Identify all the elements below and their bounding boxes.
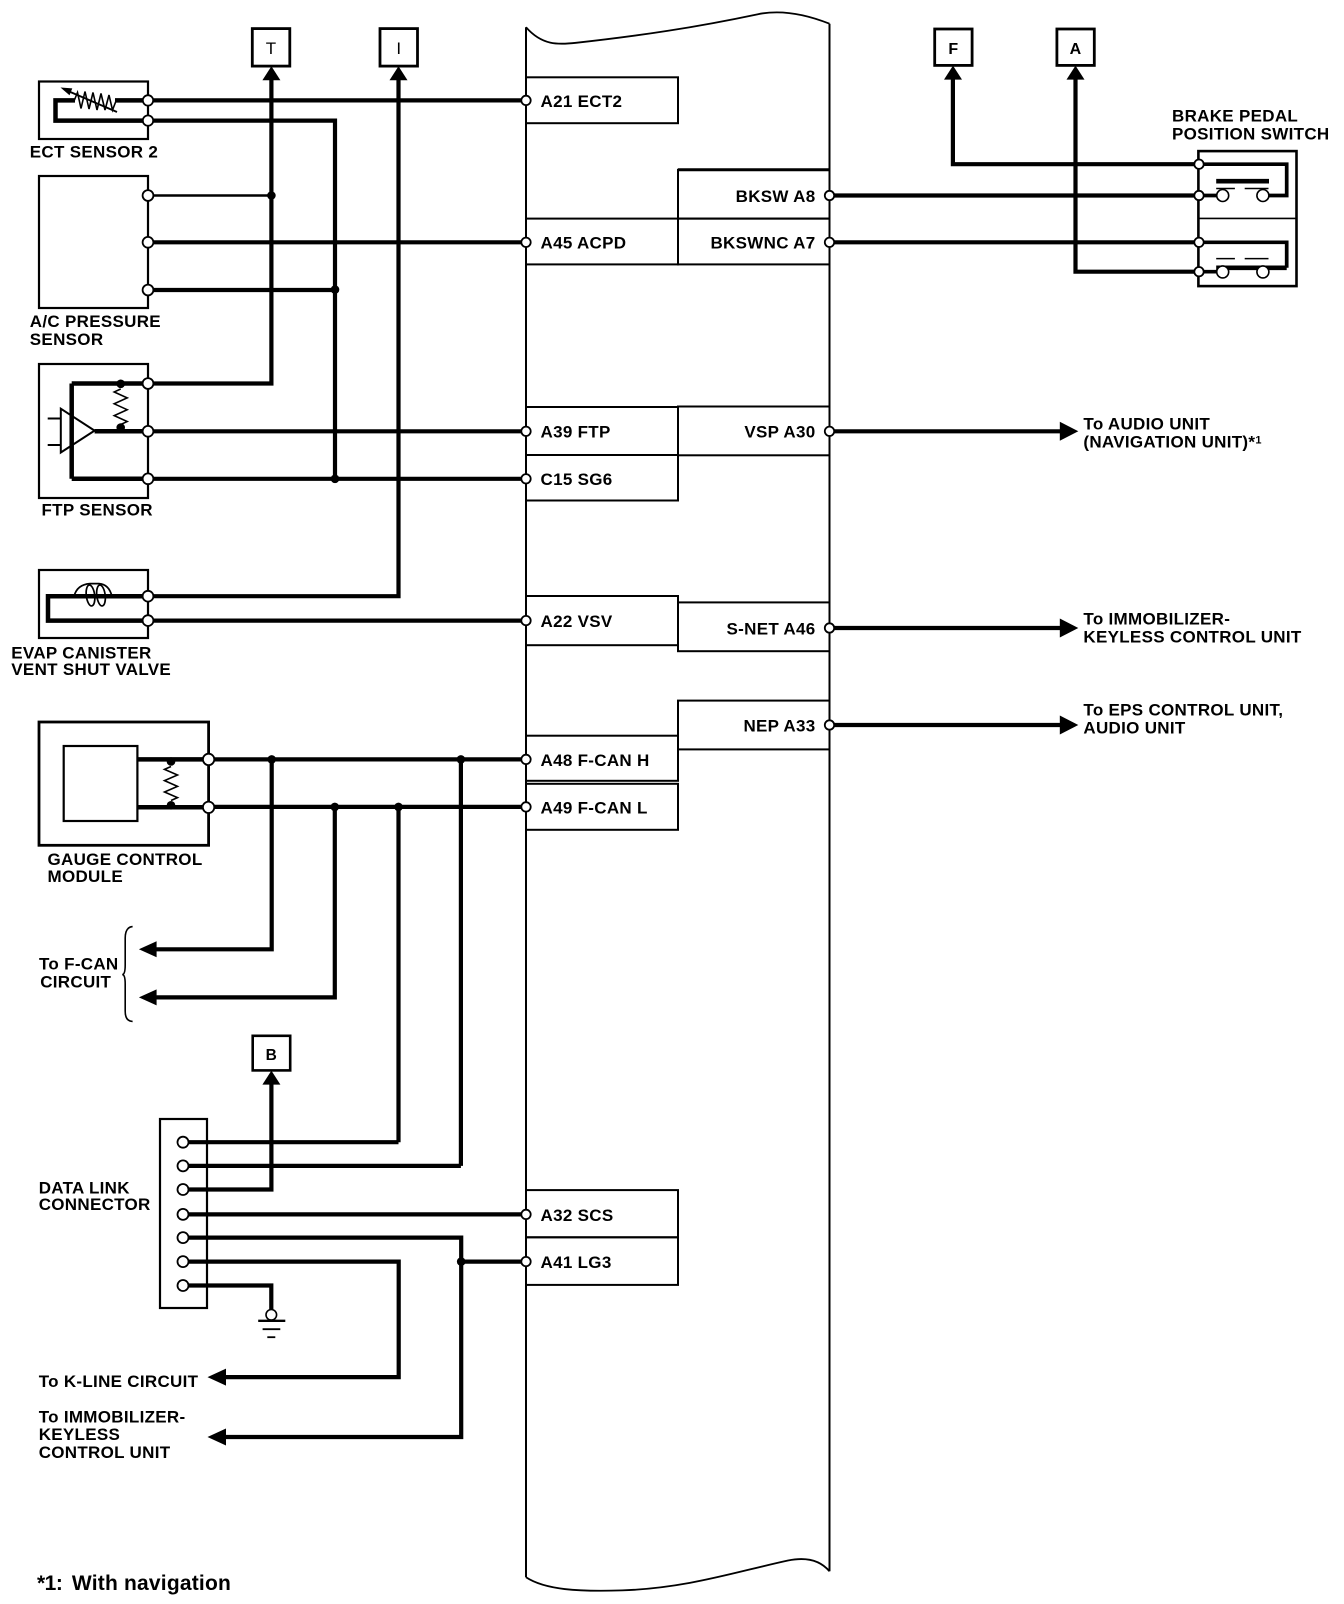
svg-text:I: I (396, 39, 401, 58)
svg-text:SENSOR: SENSOR (30, 330, 104, 349)
svg-text:To AUDIO UNIT: To AUDIO UNIT (1083, 415, 1210, 434)
svg-text:C15 SG6: C15 SG6 (541, 470, 613, 489)
svg-text:To F-CAN: To F-CAN (39, 955, 119, 974)
svg-text:A22 VSV: A22 VSV (541, 612, 613, 631)
svg-text:A39 FTP: A39 FTP (541, 423, 611, 442)
svg-text:A32 SCS: A32 SCS (541, 1206, 614, 1225)
svg-text:CIRCUIT: CIRCUIT (40, 972, 111, 991)
svg-text:A/C PRESSURE: A/C PRESSURE (30, 312, 161, 331)
svg-text:NEP A33: NEP A33 (743, 716, 815, 735)
svg-text:A49 F-CAN L: A49 F-CAN L (541, 798, 648, 817)
svg-text:VSP A30: VSP A30 (744, 423, 815, 442)
svg-text:To IMMOBILIZER-: To IMMOBILIZER- (1083, 610, 1230, 629)
svg-text:A48 F-CAN H: A48 F-CAN H (541, 751, 650, 770)
svg-text:ECT SENSOR 2: ECT SENSOR 2 (30, 142, 158, 161)
svg-text:T: T (266, 39, 276, 58)
svg-text:BKSWNC A7: BKSWNC A7 (710, 234, 815, 253)
svg-text:BRAKE PEDAL: BRAKE PEDAL (1172, 107, 1298, 126)
svg-text:*1:: *1: (37, 1572, 62, 1595)
svg-text:A21 ECT2: A21 ECT2 (541, 92, 623, 111)
svg-text:F: F (948, 41, 958, 58)
svg-text:POSITION SWITCH: POSITION SWITCH (1172, 125, 1330, 144)
svg-text:KEYLESS: KEYLESS (39, 1425, 120, 1444)
svg-text:A41 LG3: A41 LG3 (541, 1253, 612, 1272)
svg-text:To EPS CONTROL UNIT,: To EPS CONTROL UNIT, (1083, 701, 1283, 720)
svg-text:S-NET A46: S-NET A46 (727, 619, 816, 638)
svg-text:(NAVIGATION UNIT)*1: (NAVIGATION UNIT)*1 (1083, 432, 1261, 451)
svg-text:A: A (1070, 41, 1082, 58)
svg-text:VENT SHUT VALVE: VENT SHUT VALVE (11, 660, 171, 679)
svg-text:B: B (266, 1047, 278, 1064)
svg-text:MODULE: MODULE (48, 867, 123, 886)
svg-text:A45 ACPD: A45 ACPD (541, 234, 627, 253)
svg-text:CONNECTOR: CONNECTOR (39, 1195, 151, 1214)
svg-text:To IMMOBILIZER-: To IMMOBILIZER- (39, 1407, 186, 1426)
svg-text:CONTROL UNIT: CONTROL UNIT (39, 1443, 171, 1462)
svg-text:KEYLESS CONTROL UNIT: KEYLESS CONTROL UNIT (1083, 627, 1302, 646)
svg-text:To K-LINE CIRCUIT: To K-LINE CIRCUIT (39, 1372, 199, 1391)
svg-text:FTP SENSOR: FTP SENSOR (42, 501, 153, 520)
svg-text:AUDIO UNIT: AUDIO UNIT (1083, 718, 1185, 737)
svg-text:BKSW A8: BKSW A8 (736, 187, 816, 206)
svg-text:With navigation: With navigation (72, 1572, 231, 1595)
